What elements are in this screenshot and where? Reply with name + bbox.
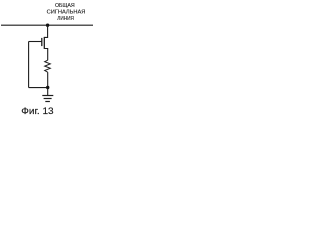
svg-text:ОБЩАЯ: ОБЩАЯ xyxy=(55,3,75,9)
ground symbol bar 1 xyxy=(42,95,53,97)
wire: left vertical feedback wire xyxy=(28,42,30,88)
wire: common signal line rail xyxy=(1,24,93,26)
svg-text:Фиг. 13: Фиг. 13 xyxy=(21,106,53,116)
wire: resistor bottom lead to ground xyxy=(47,72,49,95)
transistor Q1 gate bar xyxy=(41,38,43,46)
label: ОБЩАЯ СИГНАЛЬНАЯ ЛИНИЯ (common signal line) xyxy=(47,3,86,22)
node: junction dot at resistor/ground xyxy=(46,86,49,89)
resistor R1 zigzag xyxy=(45,60,51,72)
svg-text:СИГНАЛЬНАЯ: СИГНАЛЬНАЯ xyxy=(47,10,86,16)
wire: gate lead going left xyxy=(29,41,42,43)
wire: drain lead from rail to transistor xyxy=(44,25,47,37)
wire: source lead from transistor down to resistor xyxy=(44,49,47,61)
svg-text:ЛИНИЯ: ЛИНИЯ xyxy=(57,16,74,22)
wire: bottom horizontal wire xyxy=(29,87,48,89)
node: junction dot on signal rail xyxy=(46,24,49,27)
ground symbol bar 3 xyxy=(45,101,50,103)
transistor Q1 channel bar xyxy=(43,37,45,49)
ground symbol bar 2 xyxy=(44,98,52,100)
